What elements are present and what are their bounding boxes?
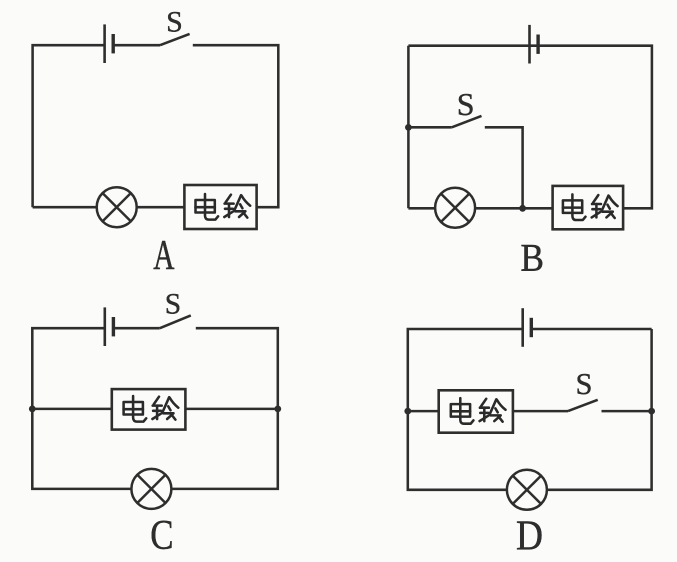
svg-text:S: S [576, 367, 593, 401]
svg-text:S: S [457, 86, 475, 122]
svg-text:C: C [150, 513, 173, 559]
svg-text:B: B [520, 237, 543, 280]
svg-text:S: S [165, 289, 181, 321]
svg-text:A: A [153, 232, 174, 278]
svg-text:S: S [166, 6, 183, 39]
svg-text:D: D [516, 513, 543, 559]
